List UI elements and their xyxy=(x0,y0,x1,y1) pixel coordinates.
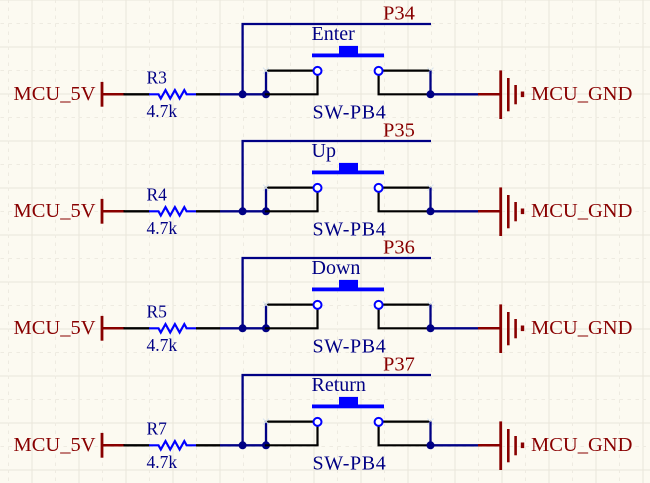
svg-text:R5: R5 xyxy=(147,301,168,321)
svg-text:R4: R4 xyxy=(147,184,168,204)
wire stub to net label P34 xyxy=(243,24,431,94)
svg-text:SW-PB4: SW-PB4 xyxy=(313,336,387,358)
svg-text:MCU_5V: MCU_5V xyxy=(13,317,95,339)
pin cross marks xyxy=(263,302,434,308)
wire stub to net label P36 xyxy=(243,258,431,328)
junction xyxy=(427,207,435,215)
svg-text:SW-PB4: SW-PB4 xyxy=(313,219,387,241)
junction xyxy=(262,441,270,449)
power port MCU_5V xyxy=(13,82,124,107)
junction xyxy=(239,324,247,332)
wire switch right vertical xyxy=(429,305,431,329)
wire resistor to switch xyxy=(220,444,266,446)
svg-text:P34: P34 xyxy=(383,3,415,25)
svg-text:SW-PB4: SW-PB4 xyxy=(313,102,387,124)
junction xyxy=(262,324,270,332)
svg-text:MCU_5V: MCU_5V xyxy=(13,200,95,222)
svg-text:P36: P36 xyxy=(383,237,415,259)
junction xyxy=(427,441,435,449)
push-button switch SW-PB4 (Enter) xyxy=(265,23,432,124)
svg-text:MCU_5V: MCU_5V xyxy=(13,434,95,456)
wire resistor to switch xyxy=(220,210,266,212)
push-button switch SW-PB4 (Down) xyxy=(265,257,432,358)
svg-text:4.7k: 4.7k xyxy=(147,335,178,355)
junction xyxy=(427,90,435,98)
svg-text:4.7k: 4.7k xyxy=(147,452,178,472)
wire switch left vertical xyxy=(265,188,267,212)
svg-text:SW-PB4: SW-PB4 xyxy=(313,453,387,475)
wire switch left vertical xyxy=(265,71,267,95)
svg-text:R3: R3 xyxy=(147,67,168,87)
power port MCU_GND xyxy=(478,304,632,353)
wire switch left vertical xyxy=(265,422,267,446)
svg-text:P35: P35 xyxy=(383,120,415,142)
svg-text:Return: Return xyxy=(312,374,366,396)
power port MCU_5V xyxy=(13,433,124,458)
pin cross marks xyxy=(263,185,434,191)
resistor R3 4.7k xyxy=(124,67,221,121)
junction xyxy=(239,207,247,215)
junction xyxy=(262,90,270,98)
wire switch to ground xyxy=(431,327,479,329)
resistor R4 4.7k xyxy=(124,184,221,238)
power port MCU_5V xyxy=(13,316,124,341)
svg-text:MCU_5V: MCU_5V xyxy=(13,83,95,105)
wire stub to net label P35 xyxy=(243,141,431,211)
svg-text:Down: Down xyxy=(312,257,361,279)
wire switch right vertical xyxy=(429,188,431,212)
power port MCU_5V xyxy=(13,199,124,224)
wire switch right vertical xyxy=(429,71,431,95)
svg-text:MCU_GND: MCU_GND xyxy=(531,317,632,339)
junction xyxy=(262,207,270,215)
svg-text:MCU_GND: MCU_GND xyxy=(531,83,632,105)
wire resistor to switch xyxy=(220,327,266,329)
push-button switch SW-PB4 (Return) xyxy=(265,374,432,475)
wire switch to ground xyxy=(431,444,479,446)
resistor R7 4.7k xyxy=(124,418,221,472)
svg-text:P37: P37 xyxy=(383,354,415,376)
svg-text:Enter: Enter xyxy=(312,23,356,45)
junction xyxy=(239,441,247,449)
svg-text:4.7k: 4.7k xyxy=(147,218,178,238)
pin cross marks xyxy=(263,68,434,74)
pin cross marks xyxy=(263,419,434,425)
wire switch to ground xyxy=(431,210,479,212)
junction xyxy=(239,90,247,98)
wire stub to net label P37 xyxy=(243,375,431,445)
power port MCU_GND xyxy=(478,70,632,119)
svg-text:Up: Up xyxy=(312,140,336,162)
wire switch right vertical xyxy=(429,422,431,446)
svg-text:4.7k: 4.7k xyxy=(147,101,178,121)
wire switch left vertical xyxy=(265,305,267,329)
svg-text:MCU_GND: MCU_GND xyxy=(531,200,632,222)
power port MCU_GND xyxy=(478,187,632,236)
wire switch to ground xyxy=(431,93,479,95)
push-button switch SW-PB4 (Up) xyxy=(265,140,432,241)
power port MCU_GND xyxy=(478,421,632,470)
resistor R5 4.7k xyxy=(124,301,221,355)
svg-text:R7: R7 xyxy=(147,418,168,438)
svg-text:MCU_GND: MCU_GND xyxy=(531,434,632,456)
junction xyxy=(427,324,435,332)
wire resistor to switch xyxy=(220,93,266,95)
